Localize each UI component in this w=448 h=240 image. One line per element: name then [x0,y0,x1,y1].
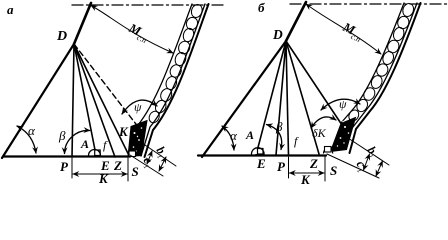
right-angle square in dome (fig a) [95,150,101,156]
stemming circles in band (fig b) [347,2,415,123]
svg-text:β: β [275,119,283,134]
small square at hole mouth (fig b) [325,147,332,153]
ray D to hole mouth S (fig a) [74,44,130,157]
svg-text:ψ: ψ [339,97,347,111]
baseline floor (fig a) [3,155,130,157]
psi angle arc (fig a) [122,100,157,114]
svg-text:P: P [60,159,69,174]
K dimension line (fig b) [290,172,325,174]
svg-text:δК: δК [312,126,327,140]
ray D to charge (fig b) [286,41,341,124]
svg-text:K: K [118,124,129,139]
svg-text:ψ: ψ [134,100,142,114]
svg-text:D: D [56,29,67,44]
svg-text:A: A [80,137,89,151]
K dimension extension line right (fig a) [127,158,129,181]
beta angle arc (fig b) [267,125,282,150]
dimension extension line upper (fig a) [142,143,176,166]
M c.p label (fig a) [125,20,152,45]
charge texture speckles (fig b) [337,121,350,147]
svg-text:f: f [294,134,299,148]
svg-text:Z: Z [113,158,122,173]
svg-text:Z: Z [309,156,318,171]
borehole band outer right wall (fig b) [350,3,421,153]
b1 dimension arrows (fig a) [159,157,166,171]
alpha angle arc (fig b) [222,126,234,150]
dash-dot crest axis line (fig b) [290,3,448,5]
M c.p dimension line (fig a) [91,6,173,54]
ray D to E (fig b) [256,41,286,155]
M c.p label (fig b) [339,19,366,44]
instrument dome symbol at E (fig b) [252,148,265,154]
ray D vertical (fig b) [286,41,289,155]
svg-text:f: f [103,138,108,152]
b1 dimension label (fig a) [152,144,170,161]
M c.p dimension line (fig b) [306,4,381,54]
c dimension arrows (fig a) [147,151,152,164]
right-angle square in dome (fig b) [258,149,264,155]
K dimension extension line right (fig b) [324,155,326,181]
ray D to E (fig a) [74,44,96,155]
dimension extension line lower (fig a) [130,155,163,176]
bench face above D (fig b) [286,2,306,41]
svg-text:S: S [330,163,337,178]
K dimension extension line left (fig a) [71,158,73,178]
svg-text:E: E [256,156,266,171]
small dome marker at hole mouth (fig b) [324,148,333,153]
svg-text:а: а [7,2,14,17]
svg-text:б: б [258,0,265,15]
explosive charge black (fig b) [331,118,356,152]
ray D to P vertical (fig a) [72,44,74,157]
slope ray D to foot, angle alpha line (fig b) [202,41,286,157]
borehole band outer right wall (fig a) [145,4,209,157]
svg-text:P: P [277,159,286,174]
c dimension label (fig a) [139,154,157,170]
dash-dot crest axis line (fig a) [72,4,223,6]
borehole band right edge (fig b) [353,3,417,127]
K dimension extension line left (fig b) [288,157,290,178]
svg-text:K: K [98,171,109,186]
K dimension line (fig a) [73,173,127,175]
dashed ray D to charge top K (fig a) [74,44,143,133]
dimension extension line upper (fig b) [348,138,389,165]
beta angle arc (fig a) [65,130,90,153]
svg-text:D: D [272,27,283,42]
borehole band left edge (fig a) [138,4,192,125]
bench face above D (fig a) [74,3,91,44]
slope ray D to foot, angle alpha line (fig a) [2,44,74,158]
svg-text:α: α [28,123,36,138]
b1 dimension arrows (fig b) [376,161,383,176]
svg-text:K: K [300,172,311,187]
ray D to Z hole mouth (fig b) [286,41,319,154]
dimension extension line lower (fig b) [327,154,379,178]
svg-text:β: β [58,128,66,143]
svg-text:S: S [132,164,139,179]
c dimension label (fig b) [352,158,370,175]
instrument dome symbol at E (fig a) [89,150,101,156]
explosive charge black (fig a) [128,121,147,157]
alpha angle arc (fig a) [17,126,36,153]
svg-text:с.п: с.п [349,32,361,44]
charge texture speckles (fig a) [133,127,143,152]
c dimension arrows (fig b) [364,154,370,170]
borehole band left edge (fig b) [341,3,404,123]
svg-text:A: A [245,128,254,142]
svg-text:с.п: с.п [135,33,147,45]
ray D to Z (fig a) [74,44,115,157]
svg-text:α: α [230,128,238,143]
small square marker at hole mouth (fig a) [129,151,136,157]
psi angle arc (fig b) [321,99,360,110]
delta K angle arc (fig b) [311,117,336,128]
baseline floor (fig b) [198,154,326,156]
ray D to P (fig b) [276,41,286,155]
b1 dimension label (fig b) [363,144,381,161]
borehole band right edge (fig a) [141,4,205,156]
stemming circles in band (fig a) [147,3,204,125]
